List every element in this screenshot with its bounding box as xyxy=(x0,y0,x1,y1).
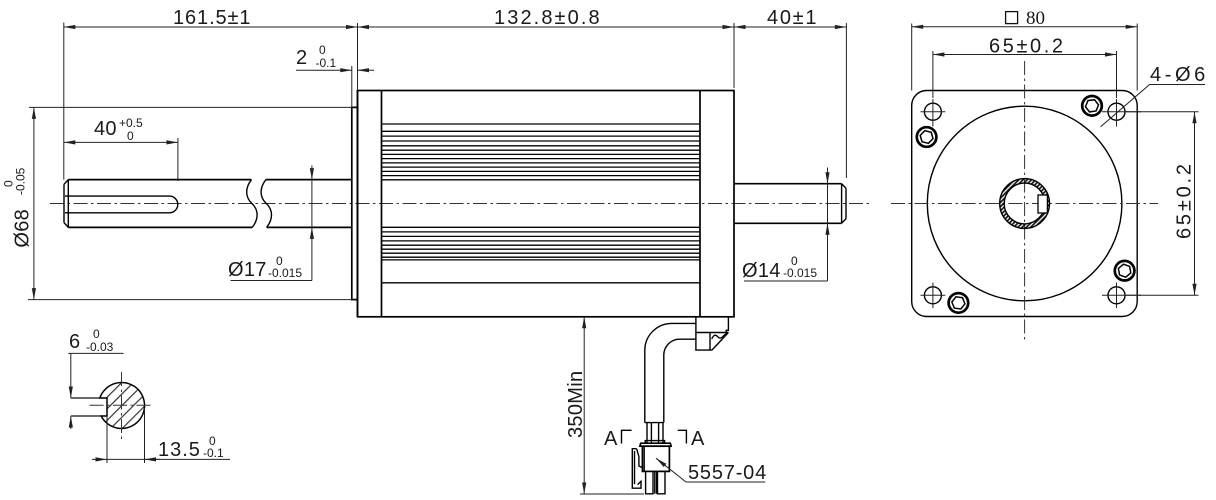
hex bolt BR xyxy=(1115,261,1135,281)
svg-text:40: 40 xyxy=(94,118,117,140)
rear shaft xyxy=(734,184,846,224)
svg-text:6: 6 xyxy=(69,331,80,353)
cable xyxy=(645,323,696,422)
svg-text:0: 0 xyxy=(127,129,134,143)
wires xyxy=(647,423,663,444)
svg-text:0: 0 xyxy=(319,43,326,57)
svg-text:Ø68: Ø68 xyxy=(12,209,34,248)
pilot circle xyxy=(927,106,1122,301)
svg-text:Ø14: Ø14 xyxy=(742,260,781,282)
dimension 6 0/-0.03 xyxy=(68,327,123,429)
motor body outline xyxy=(358,91,735,317)
hex bolt BL xyxy=(949,293,969,313)
cable boot xyxy=(696,317,729,350)
dimension 2 0/-0.1 xyxy=(296,43,374,107)
front shaft xyxy=(64,180,352,228)
svg-text:-0.03: -0.03 xyxy=(86,340,114,354)
dimension 161.5±1 xyxy=(64,7,358,180)
svg-text:5557-04: 5557-04 xyxy=(688,462,767,484)
svg-text:-0.05: -0.05 xyxy=(14,167,28,195)
centerline vertical front view xyxy=(1024,61,1026,341)
wire centerline side view xyxy=(50,203,872,205)
svg-text:161.5±1: 161.5±1 xyxy=(173,7,251,29)
mounting hole BR xyxy=(1102,283,1141,308)
svg-text:350Min: 350Min xyxy=(565,371,587,438)
connector 5557-04 xyxy=(640,441,671,494)
svg-text:-0.1: -0.1 xyxy=(203,446,224,460)
body fins lower xyxy=(382,227,701,282)
mounting hole TR xyxy=(1102,99,1141,127)
svg-text:40±1: 40±1 xyxy=(767,7,818,29)
dimension 40±1 xyxy=(734,7,846,178)
section marks A xyxy=(604,428,705,450)
mounting hole TL xyxy=(921,99,946,127)
label 4-Ø6 xyxy=(1101,64,1209,127)
label 5557-04 xyxy=(656,458,767,484)
shaft ring hatched xyxy=(1000,179,1050,229)
pilot boss xyxy=(352,107,358,299)
connector latch xyxy=(632,449,642,489)
body/cap boundary xyxy=(699,91,701,317)
svg-text:2: 2 xyxy=(296,47,307,69)
dimension Ø68 0/-0.05 xyxy=(1,107,352,299)
flange plate xyxy=(358,91,382,317)
mounting hole BL xyxy=(921,283,946,308)
break symbol xyxy=(247,180,272,228)
dimension 13.5 0/-0.1 xyxy=(92,408,230,463)
svg-text:65±0.2: 65±0.2 xyxy=(1174,161,1196,239)
dimension square 80 xyxy=(912,8,1137,91)
svg-text:A: A xyxy=(604,428,618,450)
svg-text:80: 80 xyxy=(1026,8,1045,29)
section centerlines xyxy=(121,372,123,441)
svg-text:4-Ø6: 4-Ø6 xyxy=(1150,64,1209,86)
dimension Ø14 0/-0.015 xyxy=(742,168,828,283)
dimension 65±0.2 horizontal xyxy=(933,36,1117,99)
dimension 40 +0.5/0 xyxy=(64,116,178,181)
centerline horizontal front view xyxy=(891,203,1158,205)
keyway on shaft xyxy=(65,196,178,213)
dimension 132.8±0.8 xyxy=(358,7,735,91)
svg-text:A: A xyxy=(691,428,705,450)
svg-text:-0.1: -0.1 xyxy=(316,56,337,70)
svg-text:+0.5: +0.5 xyxy=(119,116,143,130)
hex bolt TL xyxy=(917,127,937,147)
flange square xyxy=(912,91,1137,317)
hex bolt TR xyxy=(1082,96,1102,116)
svg-text:0: 0 xyxy=(93,327,100,341)
svg-text:65±0.2: 65±0.2 xyxy=(989,36,1066,58)
svg-text:-0.015: -0.015 xyxy=(783,266,817,280)
svg-text:13.5: 13.5 xyxy=(158,439,201,461)
svg-text:-0.015: -0.015 xyxy=(268,266,302,280)
dimension 65±0.2 vertical xyxy=(1126,112,1199,296)
svg-text:Ø17: Ø17 xyxy=(228,259,267,281)
section A-A shaft circle xyxy=(100,382,145,428)
dimension Ø17 0/-0.015 xyxy=(228,166,312,282)
svg-text:132.8±0.8: 132.8±0.8 xyxy=(494,7,602,29)
dimension 350Min xyxy=(565,317,644,494)
body fins upper xyxy=(382,124,701,180)
